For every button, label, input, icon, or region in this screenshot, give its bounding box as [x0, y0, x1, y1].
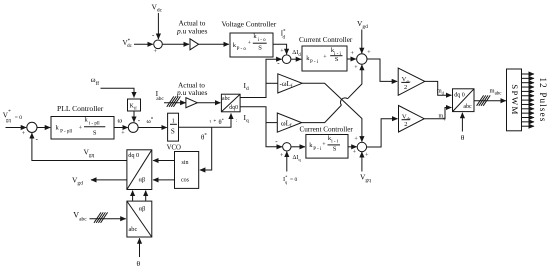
svg-text:dq 0: dq 0 [454, 93, 465, 99]
svg-text:mq: mq [439, 114, 447, 121]
svg-text:sin: sin [182, 160, 189, 166]
svg-text:θ: θ [137, 259, 141, 268]
svg-text:+: + [322, 142, 326, 148]
svg-text:1: 1 [172, 119, 175, 125]
svg-text:Current Controller: Current Controller [300, 125, 354, 133]
svg-text:+: + [367, 50, 371, 56]
svg-text:gq: gq [6, 119, 12, 124]
svg-text:θ: θ [461, 133, 465, 142]
svg-text:Voltage Controller: Voltage Controller [222, 20, 277, 29]
svg-text:PLL Controller: PLL Controller [57, 104, 104, 113]
svg-text:αβ: αβ [139, 205, 146, 212]
svg-text:ΔIq: ΔIq [293, 155, 302, 162]
svg-text:Current Controller: Current Controller [299, 36, 353, 44]
svg-text:αβ: αβ [139, 176, 146, 183]
svg-text:md: md [437, 89, 445, 96]
svg-text:S: S [258, 44, 262, 51]
svg-text:S: S [335, 56, 339, 63]
svg-text:dq0: dq0 [229, 105, 238, 111]
svg-text:+: + [354, 65, 358, 71]
svg-text:2: 2 [404, 121, 407, 128]
svg-text:+: + [280, 49, 284, 55]
svg-text:P - i: P - i [313, 147, 322, 152]
svg-text:P - pll: P - pll [60, 130, 73, 135]
svg-text:Kff: Kff [130, 104, 138, 111]
svg-text:S: S [93, 130, 97, 137]
svg-text:P - i: P - i [310, 60, 319, 65]
svg-text:dq 0: dq 0 [128, 152, 139, 159]
svg-text:abc: abc [463, 104, 472, 110]
svg-text:12 Pulses: 12 Pulses [538, 77, 548, 122]
svg-text:S: S [171, 128, 175, 136]
svg-text:+: + [323, 55, 327, 61]
svg-text:cos: cos [181, 178, 190, 184]
svg-text:i - i: i - i [331, 140, 339, 145]
svg-text:ω: ω [118, 117, 123, 125]
svg-text:= 0: = 0 [15, 115, 22, 121]
svg-text:i - o: i - o [258, 38, 267, 43]
svg-text:P - o: P - o [237, 47, 247, 52]
svg-text:i - pll: i - pll [89, 122, 100, 127]
svg-text:abc: abc [156, 96, 164, 102]
svg-text:S: S [333, 146, 337, 153]
svg-text:VCO: VCO [167, 144, 181, 151]
svg-text:2: 2 [404, 84, 407, 91]
svg-text:abc: abc [222, 96, 230, 102]
svg-text:SPWM: SPWM [510, 84, 520, 116]
svg-text:p.u values: p.u values [176, 26, 207, 35]
svg-text::: : [236, 119, 237, 124]
svg-text:p.u values: p.u values [176, 88, 207, 97]
svg-text:abc: abc [129, 226, 138, 233]
